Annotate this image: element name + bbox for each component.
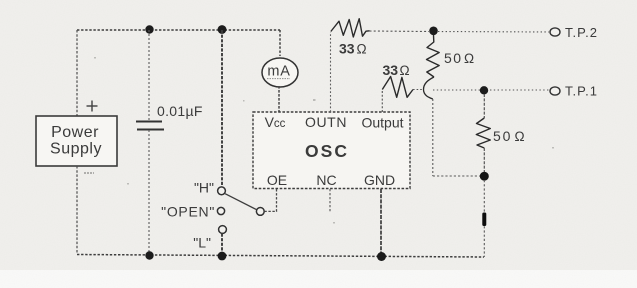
ink blob artifact on wire: [482, 213, 486, 227]
node: junction ground rail / L branch: [218, 252, 227, 261]
wire: TP2 dashed line: [438, 31, 549, 34]
svg-text:Ω: Ω: [464, 51, 474, 66]
wire: TP1 junction down to R4: [483, 94, 485, 118]
svg-text:mA: mA: [267, 64, 290, 80]
node: junction top rail / capacitor: [145, 25, 153, 33]
resistor R2 33ohm: [382, 77, 413, 98]
wire: TP1 dashed line: [433, 89, 549, 91]
svg-text:Power: Power: [51, 124, 99, 141]
node: junction ground rail / GND: [377, 252, 386, 261]
switch contact L: [219, 226, 227, 234]
node: junction TP1 / 50ohm R4: [480, 86, 488, 94]
wire: top rail from power supply to mA meter: [77, 29, 280, 31]
wire: pole to OE pin: [264, 189, 276, 212]
wire: mA meter to Vcc pin: [278, 86, 280, 112]
wire: NC stub: [329, 189, 331, 213]
wire: junction down to ground rail: [483, 180, 485, 257]
svg-text:33: 33: [383, 62, 399, 78]
terminal T.P.2: [550, 28, 560, 36]
wire: top rail corner down to mA meter: [279, 30, 281, 56]
capacitor C1 0.01uF: [136, 122, 164, 130]
wire: R3 hop over TP1 line: [424, 77, 435, 99]
node: junction top rail / switch branch: [218, 25, 227, 34]
wire: power supply - down to ground rail: [76, 166, 78, 254]
label + terminal: [87, 101, 98, 112]
node: junction TP2 / 50ohm R3: [429, 27, 438, 36]
IC U1 OSC box: [253, 112, 410, 189]
resistor R3 50ohm upper: [427, 35, 440, 77]
svg-text:"L": "L": [193, 235, 211, 251]
wire: R2 to TP1 line: [413, 89, 423, 91]
svg-text:Ω: Ω: [357, 42, 367, 57]
svg-text:Ω: Ω: [400, 63, 410, 78]
svg-text:GND: GND: [364, 172, 395, 188]
node: junction 50ohm bottoms: [480, 172, 489, 181]
resistor R4 50ohm lower: [476, 118, 490, 148]
svg-text:Output: Output: [361, 115, 403, 131]
switch blade: [225, 194, 256, 210]
switch pole contact: [256, 208, 264, 216]
terminal T.P.1: [550, 87, 560, 95]
svg-text:T.P.1: T.P.1: [565, 84, 598, 99]
wire: OUTN pin up: [330, 32, 332, 112]
svg-text:50: 50: [493, 128, 512, 144]
resistor R1 33ohm: [331, 19, 370, 37]
wire: hop down to lower junction: [432, 99, 434, 176]
wire: lower horizontal to 50ohm bottom junction: [433, 175, 480, 177]
switch contact OPEN: [217, 207, 224, 214]
wire: R4 to lower junction: [483, 148, 485, 172]
svg-text:NC: NC: [316, 172, 336, 188]
switch contact H: [218, 187, 226, 195]
wire: switch branch vertical to H contact: [221, 30, 223, 186]
wire: capacitor branch upper: [148, 30, 150, 120]
svg-text:0.01µF: 0.01µF: [157, 103, 203, 119]
svg-text:33: 33: [339, 41, 355, 57]
wire: R1 to TP2 junction: [370, 30, 430, 33]
svg-text:50: 50: [444, 50, 463, 66]
wire: left vertical from top rail to power supply +: [76, 30, 78, 116]
wire: GND pin to ground rail: [380, 189, 382, 256]
power supply P1: [36, 116, 117, 166]
wire: capacitor branch lower: [148, 130, 150, 255]
node: junction ground rail / capacitor: [145, 251, 153, 259]
wire: L contact to ground rail: [221, 234, 223, 257]
wire: bottom ground rail: [77, 255, 484, 258]
svg-text:"OPEN": "OPEN": [161, 204, 215, 220]
svg-text:OE: OE: [267, 172, 287, 188]
svg-text:Supply: Supply: [50, 141, 102, 158]
wire: Output pin up: [381, 90, 383, 113]
label - terminal: [84, 172, 94, 174]
svg-text:T.P.2: T.P.2: [565, 25, 598, 40]
svg-text:Ω: Ω: [515, 129, 525, 144]
svg-text:OUTN: OUTN: [305, 114, 347, 130]
svg-text:"H": "H": [194, 180, 214, 196]
svg-text:OSC: OSC: [305, 141, 349, 161]
ammeter M1 mA: [262, 58, 298, 87]
